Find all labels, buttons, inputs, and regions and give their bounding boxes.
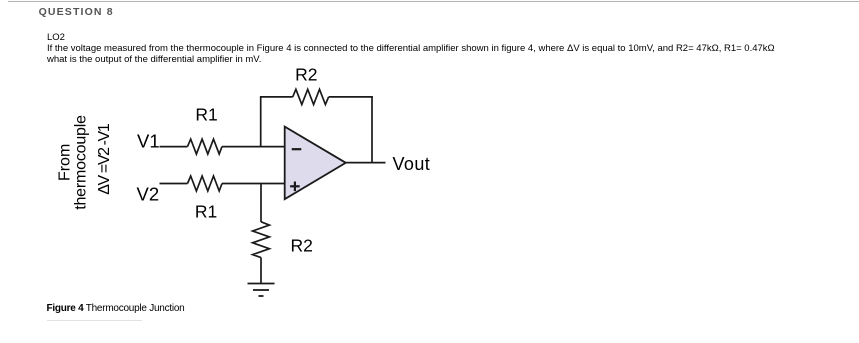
caption Figure 4 (47, 303, 185, 314)
wire feedback left vertical (260, 97, 262, 147)
wire V1 lead (160, 146, 188, 148)
svg-text:R2: R2 (291, 236, 313, 256)
ground (248, 284, 275, 297)
heading QUESTION 8 (39, 6, 114, 18)
svg-text:thermocouple: thermocouple (73, 115, 90, 210)
caption underline (47, 320, 142, 321)
wire non-inverting branch down (260, 184, 262, 223)
svg-text:ΔV =V2 -V1: ΔV =V2 -V1 (96, 123, 113, 195)
svg-text:R1: R1 (195, 105, 217, 125)
wire V2 lead (160, 183, 188, 185)
label From thermocouple (rotated) (57, 115, 113, 210)
wire R1 bottom to non-inverting input (222, 183, 285, 185)
wire R1 top to inverting input (222, 146, 285, 148)
svg-text:V2: V2 (137, 183, 160, 204)
svg-text:V1: V1 (137, 130, 160, 151)
wire output (346, 162, 386, 164)
op-amp U1 (285, 127, 346, 200)
svg-text:Vout: Vout (393, 154, 431, 174)
wire top rail right (329, 96, 373, 98)
svg-text:R2: R2 (295, 64, 317, 84)
resistor R1 bottom zigzag (188, 176, 223, 191)
wire top rail left (260, 96, 293, 98)
svg-text:R1: R1 (195, 201, 217, 221)
resistor R2 ground leg zigzag (253, 222, 270, 258)
resistor R1 top zigzag (188, 139, 223, 154)
top border line (8, 1, 859, 2)
wire feedback right vertical (371, 97, 373, 163)
wire R2 to ground (260, 258, 262, 284)
question text (47, 32, 775, 65)
resistor R2 feedback zigzag (293, 89, 329, 104)
svg-text:From: From (57, 144, 74, 181)
